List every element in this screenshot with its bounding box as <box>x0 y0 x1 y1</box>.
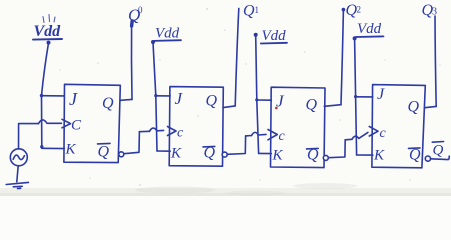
node Qbar output label <box>432 142 443 159</box>
Vdd label stage2 <box>154 26 181 42</box>
junction K1 <box>40 145 43 148</box>
wire Vdd2 down <box>153 42 157 150</box>
junction Vdd4 <box>353 36 357 40</box>
wire Q2 to node Q1 <box>223 8 239 107</box>
wire Q3 to node Q2 <box>324 10 343 106</box>
flip-flop U1 <box>64 84 120 162</box>
pin C3 <box>268 129 286 144</box>
svg-text:2: 2 <box>357 5 362 15</box>
svg-text:Vdd: Vdd <box>155 26 180 42</box>
bubble Q2bar <box>222 152 227 157</box>
svg-text:K: K <box>272 148 284 164</box>
pin C2 <box>168 126 185 141</box>
svg-text:c: c <box>380 126 387 141</box>
ground <box>6 182 28 188</box>
pin Q1bar <box>98 143 111 160</box>
svg-text:1: 1 <box>255 5 260 15</box>
svg-text:J: J <box>69 89 78 109</box>
wire Q3bar to C4 <box>328 132 368 157</box>
junction Vdd1 <box>47 41 51 45</box>
svg-text:Vdd: Vdd <box>357 21 382 37</box>
node Q3 label <box>422 2 438 19</box>
svg-text:K: K <box>170 146 182 162</box>
svg-text:J: J <box>377 86 385 103</box>
node Q2 label <box>346 2 362 19</box>
Vdd label stage4 <box>355 21 383 37</box>
svg-text:K: K <box>373 148 385 164</box>
pin Q2bar <box>203 145 216 162</box>
wire Q2bar to C3 <box>227 132 266 154</box>
pin Q3bar <box>307 147 320 164</box>
wire K1 stub <box>42 147 65 149</box>
wire Q1bar to C2 <box>124 128 164 154</box>
wire J4 stub <box>356 96 373 98</box>
svg-text:c: c <box>177 126 184 141</box>
wire ground lead <box>17 166 18 182</box>
junction J1 <box>40 94 43 97</box>
svg-text:Q: Q <box>206 93 218 110</box>
wire J3 stub <box>257 99 272 101</box>
junction J2 <box>154 94 157 97</box>
svg-text:3: 3 <box>432 7 437 18</box>
svg-text:Q: Q <box>408 99 420 116</box>
svg-text:Q: Q <box>433 142 444 158</box>
svg-text:Vdd: Vdd <box>262 28 287 44</box>
junction Vdd3 <box>254 33 258 37</box>
wire J2 stub <box>156 95 170 97</box>
wire K4 stub <box>357 154 373 156</box>
Vdd label stage1 <box>33 15 62 41</box>
wire Q1 to node Q0 <box>121 21 132 101</box>
junction Vdd2 <box>151 40 155 44</box>
svg-text:0: 0 <box>138 5 143 15</box>
bubble Q3bar <box>323 155 328 160</box>
wire K3 stub <box>259 152 272 154</box>
junction J4 <box>354 95 357 98</box>
junction node Q2 <box>342 8 346 12</box>
flip-flop U3 <box>271 87 326 167</box>
wire K2 stub <box>157 150 170 152</box>
svg-text:Q: Q <box>98 144 110 161</box>
svg-text:C: C <box>71 118 82 134</box>
Vdd label stage3 <box>261 28 287 44</box>
wire Vdd4 down <box>355 39 357 155</box>
bubble Q4bar <box>425 156 430 161</box>
wire Vdd1 down <box>42 43 49 148</box>
pin Q4bar <box>409 147 422 164</box>
svg-text:c: c <box>279 129 286 144</box>
pin C4 <box>369 126 386 141</box>
svg-text:Q: Q <box>102 95 114 112</box>
red dot mark <box>275 107 278 110</box>
wire clock to C1 <box>19 120 62 149</box>
node Q1 label <box>243 3 259 20</box>
wire Q4 to node Q3 <box>425 16 436 108</box>
svg-text:K: K <box>65 142 77 158</box>
svg-text:Q: Q <box>306 97 318 114</box>
clock source V1 <box>10 149 27 166</box>
junction J3 <box>255 98 258 101</box>
flip-flop U4 <box>372 85 425 168</box>
node Q0 label <box>128 5 143 25</box>
bubble Q1bar <box>119 152 124 157</box>
wire Vdd3 down <box>256 35 259 153</box>
wire Q4bar output <box>431 156 450 159</box>
svg-text:Vdd: Vdd <box>34 23 62 40</box>
wire J1 stub <box>42 95 65 97</box>
svg-text:Q: Q <box>243 3 255 20</box>
pin C1 <box>62 118 82 134</box>
flip-flop U2 <box>169 87 223 167</box>
